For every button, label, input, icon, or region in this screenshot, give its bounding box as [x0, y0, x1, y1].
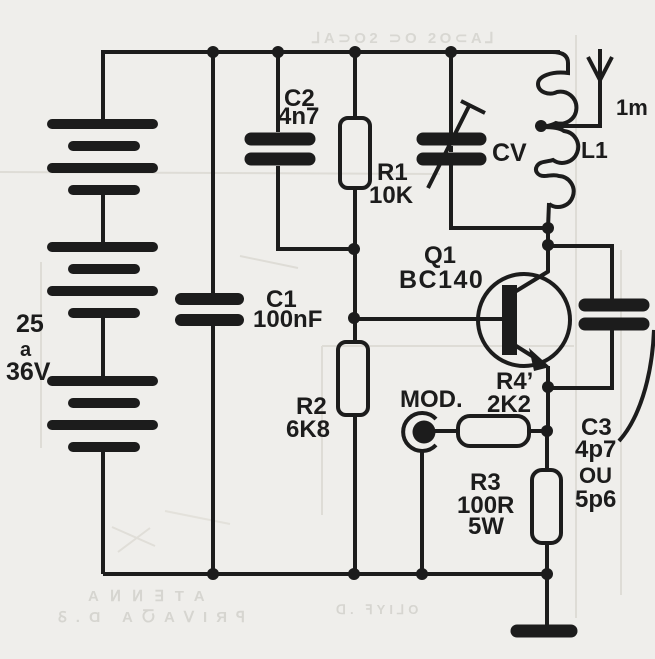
junction dot bottom of C1 branch [207, 568, 219, 580]
svg-text:Ꟙ.Ɑ AႠAⅤIЯꟼ: Ꟙ.Ɑ AႠAⅤIЯꟼ [58, 609, 254, 626]
svg-text:5p6: 5p6 [575, 486, 616, 513]
wire to ground [545, 574, 549, 626]
junction dot R4/R3 node [541, 425, 553, 437]
svg-text:ᗡ. ꟻYI⅃O: ᗡ. ꟻYI⅃O [336, 602, 422, 617]
capacitor C3 bottom lead [548, 330, 612, 388]
svg-text:OU: OU [579, 463, 612, 488]
battery inter-cell stems [101, 190, 105, 574]
svg-text:⅃A⊃O2 ⊃O 2O⊂A⅃: ⅃A⊃O2 ⊃O 2O⊂A⅃ [311, 30, 497, 47]
junction dot CV top [445, 46, 457, 58]
junction dot CV/L1 node [542, 222, 554, 234]
junction dot L1 tap [535, 120, 547, 132]
CV plates [423, 139, 480, 159]
svg-text:36V: 36V [6, 358, 51, 386]
resistor branch R1/R2 vertical wire [353, 52, 357, 574]
R3 bottom lead [545, 543, 549, 574]
svg-text:4p7: 4p7 [575, 436, 616, 463]
tap wire to antenna [541, 79, 600, 126]
CV arrow crossbar [461, 101, 485, 113]
resistor R3 body [532, 470, 561, 543]
pointer arc from C3 label to capacitor [619, 330, 654, 441]
battery B1 25 a 36V [52, 124, 153, 447]
svg-text:2K2: 2K2 [487, 391, 531, 418]
variable capacitor CV branch wire [451, 52, 548, 228]
MOD to R4 wire [424, 429, 458, 433]
capacitor C3 plates [585, 305, 643, 324]
svg-text:BC140: BC140 [399, 266, 484, 294]
left rail wire down to battery [101, 50, 105, 122]
emitter node to R4 node wire [546, 387, 550, 431]
junction dot top of C1 branch [207, 46, 219, 58]
base wire to Q1 [354, 317, 502, 321]
CV arrow diagonal [428, 106, 469, 188]
junction dot emitter node [542, 381, 554, 393]
inductor L1 coil [536, 52, 578, 207]
resistor R2 body [338, 342, 368, 415]
capacitor C1 plates [181, 299, 238, 320]
svg-text:CV: CV [492, 139, 527, 167]
svg-text:AͶͶ∃TA: AͶͶ∃TA [88, 588, 216, 605]
svg-text:100nF: 100nF [253, 306, 322, 333]
Q1 collector lead [513, 271, 549, 293]
node: second vertical line (C1 branch) [211, 52, 215, 574]
Q1 emitter arrowhead [529, 348, 550, 371]
junction dot R2 bottom [348, 568, 360, 580]
junction dot base node [348, 312, 360, 324]
resistor R4 body [458, 416, 529, 446]
svg-text:4n7: 4n7 [278, 103, 319, 130]
capacitor C2 plates [251, 139, 309, 159]
junction dot MOD bottom [416, 568, 428, 580]
junction dot C2/R1 [348, 243, 360, 255]
capacitor C3 top lead [548, 246, 612, 299]
svg-text:Q1: Q1 [424, 242, 456, 269]
svg-text:5W: 5W [468, 513, 504, 540]
junction dot collector/C3 node [542, 239, 554, 251]
junction dot C2 top [272, 46, 284, 58]
ghost show-through top text [311, 30, 497, 47]
capacitor C2 bottom wire [278, 166, 354, 249]
svg-text:1m: 1m [616, 95, 648, 120]
transistor Q1 BC140 circle [478, 274, 570, 366]
ground [517, 625, 571, 638]
svg-text:L1: L1 [581, 137, 608, 163]
bottom rail wire [103, 572, 547, 576]
collector vertical wire [546, 228, 550, 272]
Q1 base bar [502, 285, 517, 355]
L1 bottom lead [548, 203, 549, 228]
svg-text:25: 25 [16, 310, 44, 338]
capacitor C2 branch wire top [276, 52, 280, 132]
MOD center dot [413, 421, 436, 444]
R4 right wire [529, 429, 547, 433]
emitter exit wire [546, 366, 550, 386]
MOD down wire [420, 449, 424, 574]
top rail wire [103, 50, 560, 54]
resistor R1 body [340, 118, 370, 188]
R3 top lead [545, 431, 549, 470]
junction dot R1 top [349, 46, 361, 58]
antenna [588, 49, 612, 82]
junction dot ground node [541, 568, 553, 580]
svg-text:6K8: 6K8 [286, 416, 330, 443]
svg-text:MOD.: MOD. [400, 386, 463, 413]
ghost show-through bottom text [58, 588, 422, 626]
Q1 emitter lead with arrow [513, 344, 540, 361]
svg-text:10K: 10K [369, 182, 414, 209]
MOD input connector [403, 413, 436, 451]
